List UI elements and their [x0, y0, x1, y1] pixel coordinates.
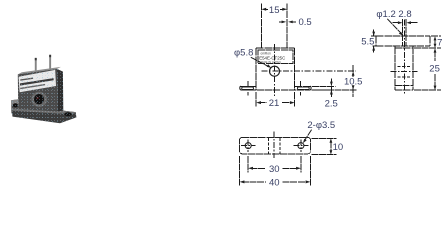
hidden hole lines: [397, 67, 410, 78]
terminal pin sides: [403, 19, 407, 46]
right hole crosshair: [293, 139, 308, 152]
dimension 2.8 arrows: [392, 21, 418, 24]
dimension 5.5: [371, 30, 376, 53]
right pin: [286, 4, 288, 49]
dimension 7: [414, 36, 441, 48]
phi 5.8 leader: [251, 57, 271, 68]
left slot centerline: [247, 81, 249, 95]
dimension 25: [414, 48, 441, 90]
svg-text:10.5: 10.5: [344, 77, 363, 88]
svg-text:φ1.2: φ1.2: [376, 9, 395, 20]
2-phi3.5 leader: [303, 130, 312, 144]
photo base front slab: [11, 109, 76, 124]
left hole: [245, 143, 251, 149]
body outline: [256, 48, 295, 90]
body column: [395, 46, 413, 90]
dimension 0.5 arrows: [279, 21, 296, 24]
photo base left flange: [11, 99, 19, 113]
label box: [258, 50, 293, 64]
svg-text:40: 40: [269, 178, 280, 189]
left slot: [242, 87, 254, 89]
product photo: [11, 55, 76, 123]
hole vertical centerline: [274, 44, 276, 97]
left hole crosshair: [241, 139, 256, 152]
collar band: [376, 36, 430, 46]
dimension 2.5: [312, 79, 336, 98]
right hole: [298, 143, 304, 149]
svg-text:5.5: 5.5: [361, 37, 374, 48]
base seam line: [395, 84, 413, 86]
right slot centerline: [300, 81, 302, 95]
photo dither overlay: [11, 69, 76, 123]
photo label: [19, 70, 56, 92]
hole horizontal centerline: [262, 70, 357, 72]
bottom view centerline: [273, 131, 275, 158]
photo base top edge highlight: [11, 109, 75, 114]
photo base left slot: [13, 103, 18, 107]
svg-text:2.5: 2.5: [325, 99, 338, 110]
base outline: [240, 138, 311, 154]
svg-text:10: 10: [333, 142, 344, 153]
svg-text:0.5: 0.5: [299, 17, 312, 28]
hidden center hole lines: [268, 138, 280, 154]
photo hole boss: [31, 92, 47, 107]
photo body top face: [18, 67, 61, 75]
terminal pin centerline: [403, 20, 405, 94]
photo base right slot: [64, 112, 71, 116]
photo body right side face: [57, 69, 63, 113]
dimension 10: [311, 138, 336, 154]
svg-text:2.8: 2.8: [398, 9, 411, 20]
dimension 21: [256, 92, 295, 107]
phi 1.2 leader: [387, 19, 403, 36]
svg-text:15: 15: [269, 5, 280, 16]
dimension 30: [248, 156, 301, 173]
photo center hole: [34, 94, 44, 104]
svg-text:21: 21: [269, 98, 280, 109]
svg-text:30: 30: [269, 164, 280, 175]
dimension 15 line: [261, 8, 287, 11]
dimension 40: [240, 156, 311, 186]
photo left pin: [35, 58, 37, 77]
svg-text:25: 25: [429, 63, 440, 74]
photo right pin: [49, 55, 51, 73]
svg-text:7: 7: [437, 38, 442, 49]
base plate: [240, 86, 311, 90]
svg-text:2-φ3.5: 2-φ3.5: [307, 120, 335, 131]
center hole: [270, 66, 280, 76]
photo body front face: [18, 69, 58, 114]
right slot: [297, 87, 309, 89]
photo label text lines: [20, 78, 33, 81]
svg-text:φ5.8: φ5.8: [234, 48, 253, 59]
dimension 10.5: [312, 65, 357, 97]
left pin: [260, 4, 262, 49]
side hole centerline: [390, 70, 417, 72]
